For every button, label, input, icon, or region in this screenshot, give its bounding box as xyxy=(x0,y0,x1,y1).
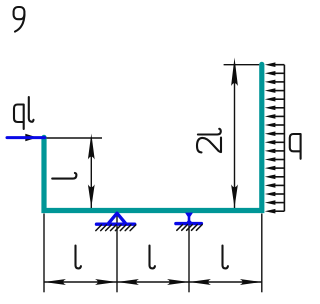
distributed load q: tail line xyxy=(283,65,285,212)
label 9 (problem number) xyxy=(14,7,25,32)
bottom arrowhead left-pointing at x=44 xyxy=(44,279,66,285)
label l span 1 xyxy=(76,246,81,269)
roller support B body xyxy=(185,213,193,221)
extension line top-left xyxy=(47,137,103,139)
dimension line l (left vertical) xyxy=(90,138,92,208)
bottom arrowhead right-pointing at x=189 xyxy=(167,279,189,285)
extension line top-right xyxy=(224,64,260,66)
pinned support A hatching xyxy=(96,225,136,231)
distributed load q: arrowheads xyxy=(265,62,276,213)
arrowhead down (left dim) xyxy=(88,184,95,207)
label l span 2 xyxy=(150,246,155,269)
roller support B ground line xyxy=(176,222,202,225)
label ql (force label) xyxy=(14,97,34,129)
bottom arrowhead left-pointing at x=189 xyxy=(189,279,211,285)
roller support B hatching xyxy=(177,225,202,231)
extension line below right column xyxy=(261,214,263,293)
label l span 3 xyxy=(223,246,228,269)
bottom dimension line xyxy=(44,281,262,283)
roller support B hinge dot xyxy=(187,220,192,225)
bottom arrowhead left-pointing at x=117 xyxy=(117,279,139,285)
label 2l rotated (right vertical dimension) xyxy=(197,129,221,153)
force arrow ql blue shaft xyxy=(7,136,45,139)
bottom arrowhead right-pointing at x=262 xyxy=(240,279,262,285)
arrowhead down (right dim) xyxy=(231,184,238,207)
arrowhead up (right dim) xyxy=(231,58,238,87)
extension line below left column xyxy=(43,214,45,293)
pinned support A ground line xyxy=(97,222,135,225)
force arrow ql (black head under blue shaft) xyxy=(25,134,37,142)
extension line below pinned support xyxy=(116,214,118,292)
bottom arrowhead right-pointing at x=117 xyxy=(95,279,117,285)
distributed load q: arrow rows xyxy=(275,65,285,212)
pinned support A triangle xyxy=(109,213,126,223)
label l rotated (left vertical dimension) xyxy=(52,173,76,179)
extension line below roller support xyxy=(188,214,190,292)
dimension line 2l (right vertical) xyxy=(234,65,236,208)
frame: left column, bottom beam, right column (teal) xyxy=(44,64,262,210)
label q (distributed load) xyxy=(290,134,301,159)
arrowhead up (left dim) xyxy=(88,134,95,160)
